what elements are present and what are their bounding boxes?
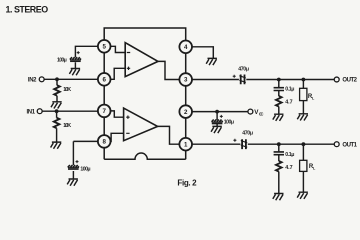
svg-text:0.1μ: 0.1μ [285,87,294,93]
svg-text:4.7: 4.7 [285,100,292,106]
svg-text:2: 2 [184,109,188,116]
svg-text:1. STEREO: 1. STEREO [6,4,49,14]
svg-text:10K: 10K [63,123,71,129]
svg-text:IN1: IN1 [27,109,36,115]
svg-text:8: 8 [102,139,106,146]
svg-text:1: 1 [184,141,188,148]
svg-text:4: 4 [184,44,188,51]
svg-text:CC: CC [259,112,264,117]
svg-text:IN2: IN2 [28,78,37,84]
svg-text:100μ: 100μ [224,120,234,126]
svg-text:0.1μ: 0.1μ [285,152,294,158]
svg-text:OUT2: OUT2 [342,78,357,84]
svg-text:Fig. 2: Fig. 2 [177,178,197,187]
svg-text:100μ: 100μ [57,57,67,63]
svg-text:3: 3 [184,77,188,84]
svg-text:4.7: 4.7 [285,165,292,171]
svg-text:5: 5 [102,44,106,51]
svg-text:470μ: 470μ [238,67,249,73]
svg-text:100μ: 100μ [80,166,90,172]
svg-text:6: 6 [102,77,106,84]
svg-text:OUT1: OUT1 [342,142,357,148]
svg-text:7: 7 [102,108,106,115]
svg-text:10K: 10K [63,87,71,93]
svg-text:470μ: 470μ [242,131,253,137]
